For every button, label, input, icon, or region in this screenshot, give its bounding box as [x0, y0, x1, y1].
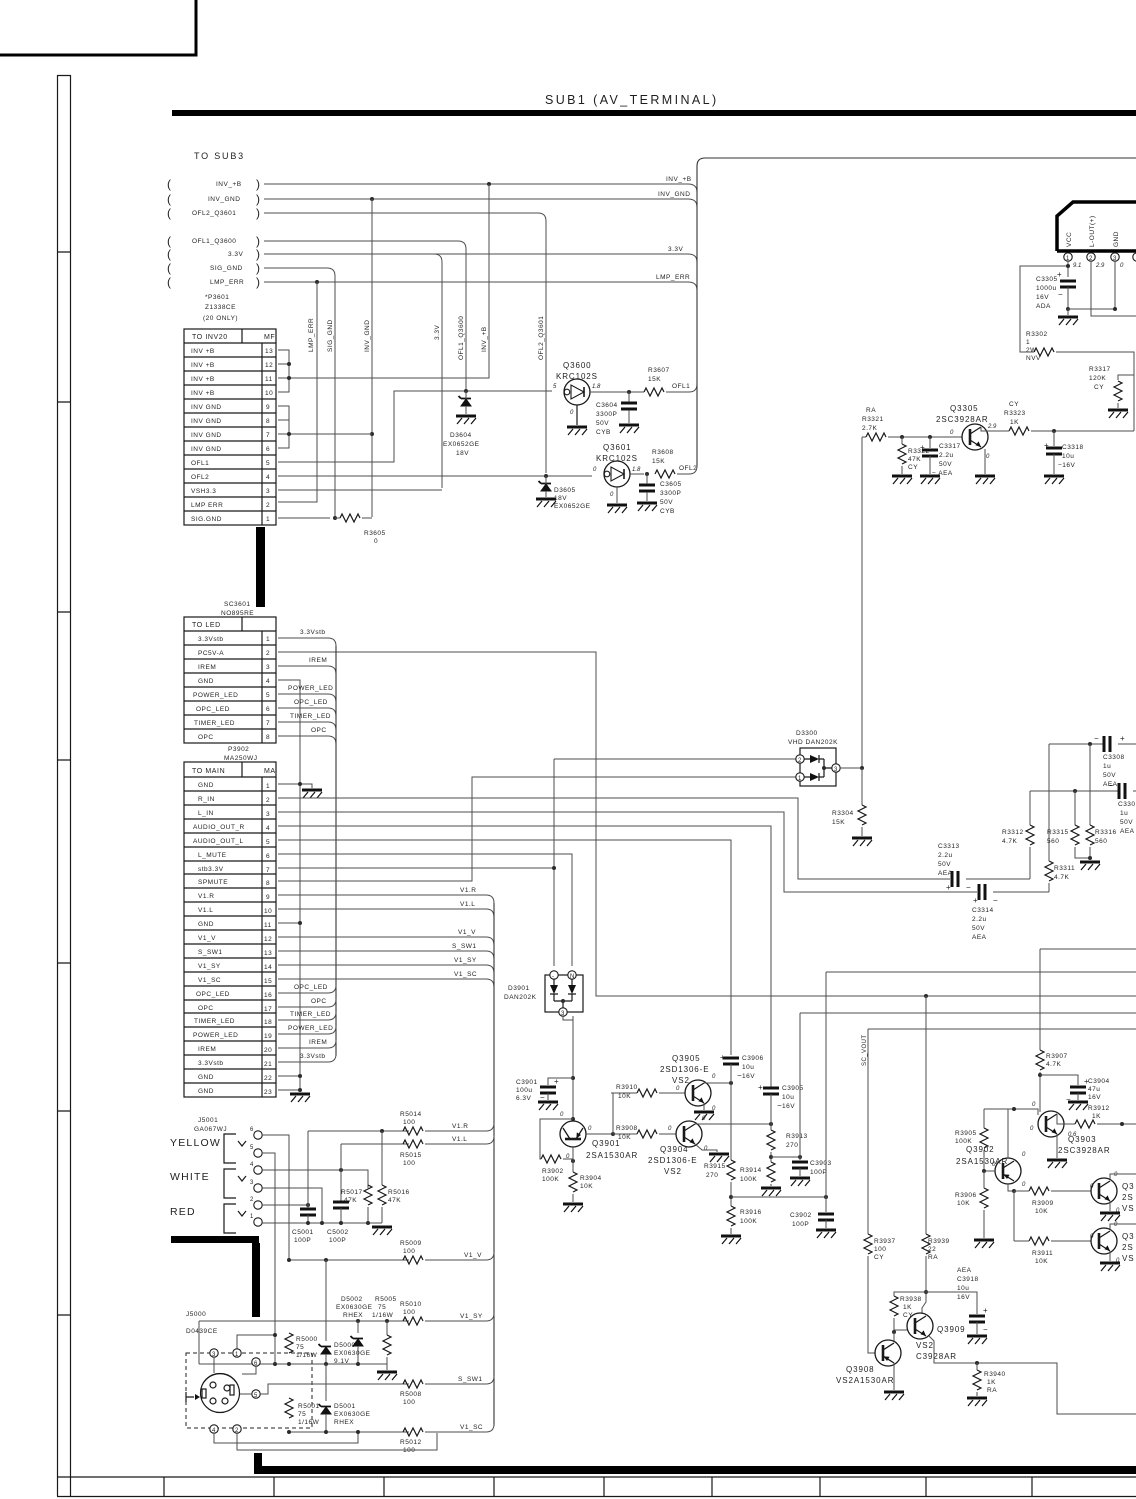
svg-text:Q3: Q3 [1122, 1182, 1134, 1191]
wire pin19 POWER_LED hook [278, 1026, 336, 1034]
svg-text:10u: 10u [782, 1094, 794, 1101]
svg-text:Q3901: Q3901 [592, 1139, 621, 1148]
resistor R3910 [613, 1092, 637, 1094]
resistor R5000 in video line [285, 1333, 293, 1353]
svg-text:100K: 100K [955, 1138, 972, 1145]
svg-text:INV GND: INV GND [191, 418, 222, 425]
svg-text:TO INV20: TO INV20 [192, 334, 228, 341]
svg-text:ADA: ADA [1036, 303, 1051, 310]
svg-text:V1_V: V1_V [464, 1252, 482, 1259]
connector stub LMP_ERR [167, 275, 260, 289]
svg-text:LMP ERR: LMP ERR [191, 502, 223, 509]
svg-text:1K: 1K [1010, 419, 1019, 426]
transistor Q3902 2SA1530AR [956, 1145, 1026, 1188]
svg-text:10K: 10K [618, 1093, 631, 1100]
ground Q3904 [709, 1154, 729, 1162]
svg-text:VS2A1530AR: VS2A1530AR [836, 1376, 894, 1385]
wire Q3904 collector to C3905 node [695, 1123, 771, 1125]
wire main top to right edge [697, 158, 1136, 166]
junction V1.L takeoff [339, 1168, 343, 1172]
svg-text:INV_GND: INV_GND [658, 191, 690, 198]
svg-text:75: 75 [378, 1304, 386, 1311]
svg-text:VS: VS [1122, 1254, 1134, 1263]
svg-text:5: 5 [254, 1393, 258, 1399]
junction Q3905 collector [729, 1081, 733, 1085]
resistor R5016 [381, 1131, 383, 1185]
wire net C3308 line [1049, 743, 1103, 745]
capacitor C3318 [1053, 431, 1055, 446]
wire pin13 S_SW1 hook [278, 951, 494, 959]
svg-text:+: + [1057, 270, 1063, 279]
wire pin5 OFL1 to Q3600 base [278, 391, 552, 462]
svg-text:4.7K: 4.7K [1054, 874, 1070, 881]
bottom title-block table [57, 1477, 1136, 1497]
svg-text:OPC_LED: OPC_LED [294, 699, 328, 706]
wire LMP_ERR to bus [264, 282, 697, 290]
svg-text:V1_SY: V1_SY [198, 963, 221, 970]
wire line y972 to right edge [826, 971, 1136, 973]
ground Q3903 [1047, 1160, 1067, 1168]
svg-text:RHEX: RHEX [343, 1312, 363, 1319]
wire svideo pin5 to S_SW1 [260, 1384, 409, 1394]
ground R3304 [852, 838, 872, 846]
wire Q3904 emitter ground [695, 1144, 717, 1152]
svg-text:10u: 10u [1062, 453, 1074, 460]
wire INV_+B to bus [264, 184, 697, 192]
resistor R5009 [403, 1256, 423, 1264]
wire svideo pin6 stub [242, 1366, 256, 1374]
svg-text:16V: 16V [957, 1294, 970, 1301]
zener D3604 [459, 396, 472, 406]
svg-text:OFL2_Q3601: OFL2_Q3601 [538, 316, 545, 360]
ground D3605 [536, 499, 556, 507]
svg-text:C3317: C3317 [939, 443, 961, 450]
wire pin1 GND [278, 784, 312, 788]
svg-text:V1.L: V1.L [460, 901, 475, 908]
svg-text:6: 6 [266, 853, 270, 860]
junction Q3909 collector node [924, 1290, 928, 1294]
svg-text:R3902: R3902 [542, 1168, 564, 1175]
svg-text:OFL1: OFL1 [672, 383, 690, 390]
capacitor C3901 [540, 1087, 556, 1093]
svg-text:8: 8 [266, 418, 270, 425]
svg-text:OFL2: OFL2 [191, 474, 209, 481]
svg-text:17: 17 [264, 1006, 272, 1013]
svg-text:SIG_GND: SIG_GND [327, 319, 334, 352]
svg-text:C3902: C3902 [790, 1212, 812, 1219]
svg-text:INV +B: INV +B [191, 348, 215, 355]
junction pin22 GND [278, 1075, 300, 1077]
wire V1.L line [341, 1144, 409, 1201]
svg-text:SC3601: SC3601 [224, 601, 251, 608]
transistor Q3908 [836, 1340, 901, 1385]
wire LMP_ERR vertical to pin2 [278, 282, 317, 502]
svg-text:V1.R: V1.R [452, 1123, 468, 1130]
ground R3315 R3316 [1080, 862, 1100, 870]
wire pin4 AUDIO_OUT_R down [278, 826, 771, 1087]
svg-text:2: 2 [798, 758, 802, 764]
rca jack red [224, 1204, 246, 1233]
svg-text:D0439CE: D0439CE [186, 1328, 218, 1335]
svg-text:16V: 16V [1036, 294, 1049, 301]
svg-text:L-OUT(+): L-OUT(+) [1089, 215, 1096, 247]
svg-text:PC5V-A: PC5V-A [198, 650, 224, 657]
svg-text:(: ( [167, 234, 171, 248]
svg-text:CY: CY [874, 1254, 884, 1261]
junction rail nodes [306, 1221, 310, 1225]
svg-text:20: 20 [264, 1047, 272, 1054]
ground C3901 [538, 1102, 558, 1110]
wire pin17 OPC hook [278, 999, 336, 1007]
svg-text:INV_GND: INV_GND [364, 320, 371, 352]
svg-text:AUDIO_OUT_L: AUDIO_OUT_L [193, 838, 244, 845]
svg-text:R3312: R3312 [1002, 829, 1024, 836]
ground Q3601 [607, 505, 627, 513]
wire D3300 pin3 to vertical [840, 767, 862, 769]
wire to Q3908 collector [894, 1332, 897, 1343]
svg-text:WHITE: WHITE [170, 1171, 210, 1183]
svg-text:50V: 50V [1120, 819, 1133, 826]
svg-text:1: 1 [266, 783, 270, 790]
resistor R3316 [1089, 744, 1091, 825]
svg-text:OFL1_Q3600: OFL1_Q3600 [192, 238, 236, 245]
wire to Q3909 base [894, 1329, 907, 1331]
capacitor C3918 [969, 1316, 985, 1322]
svg-text:−: − [1109, 781, 1115, 790]
svg-text:100: 100 [403, 1309, 415, 1316]
svg-text:2SD1306-E: 2SD1306-E [660, 1065, 709, 1074]
svg-text:3.3Vstb: 3.3Vstb [300, 1053, 326, 1060]
junction C3901 [571, 1076, 575, 1080]
svg-text:10K: 10K [957, 1200, 970, 1207]
wire pins 13-10 bracket [278, 350, 289, 392]
svg-text:2.2u: 2.2u [972, 916, 987, 923]
junction pin11 GND [278, 922, 300, 924]
wire R3907 vertical [1039, 949, 1041, 1050]
resistor R3937 [864, 1234, 872, 1254]
ground R3940 [967, 1398, 987, 1406]
svg-text:R3916: R3916 [740, 1209, 762, 1216]
wire Q3901 collector to R3908 [586, 1133, 611, 1135]
wire pins 9-6 bracket [278, 406, 289, 448]
capacitor C3902 [818, 1214, 834, 1220]
resistor R3916 [727, 1206, 735, 1226]
svg-text:OPC_LED: OPC_LED [294, 984, 328, 991]
svg-text:100: 100 [403, 1160, 415, 1167]
junction INV_GND [370, 197, 374, 201]
svg-text:9: 9 [266, 894, 270, 901]
wire line y949 to right edge [1040, 948, 1136, 950]
svg-text:EX0630GE: EX0630GE [334, 1411, 371, 1418]
junction D3300 out [860, 766, 864, 770]
thick L bar left of S-video section [171, 1236, 259, 1243]
svg-text:3.3Vstb: 3.3Vstb [198, 1060, 224, 1067]
connector table P3902 TO MAIN [184, 762, 276, 1097]
dual diode D3300 [788, 730, 840, 786]
svg-text:(: ( [167, 206, 171, 220]
transistor Q3305 2SC3928AR [936, 404, 997, 460]
svg-text:AEA: AEA [1120, 828, 1135, 835]
svg-text:15K: 15K [832, 819, 845, 826]
wire svideo pin4 bottom [214, 1432, 358, 1443]
ground R3904 [563, 1204, 583, 1212]
svg-text:47u: 47u [1088, 1086, 1100, 1093]
svg-text:1u: 1u [1120, 810, 1128, 817]
svg-text:Q3909: Q3909 [937, 1325, 966, 1334]
svg-text:C3903: C3903 [810, 1160, 832, 1167]
junction C3903 top [798, 1155, 802, 1159]
resistor R3940 [976, 1363, 978, 1370]
junction base line [1012, 1107, 1016, 1111]
svg-text:1/16W: 1/16W [298, 1419, 320, 1426]
junction R3316 top [1088, 742, 1092, 746]
wire SC IREM hook [278, 666, 336, 674]
svg-text:100: 100 [874, 1246, 886, 1253]
junction SIG_GND pin1 [333, 516, 337, 520]
svg-text:−16V: −16V [1058, 462, 1076, 469]
svg-text:NO895RE: NO895RE [221, 610, 254, 617]
svg-text:1: 1 [250, 1214, 254, 1220]
junction R3940 [975, 1361, 979, 1365]
svg-text:GND: GND [198, 678, 214, 685]
svg-text:R3906: R3906 [955, 1192, 977, 1199]
ground C3305 [1067, 309, 1069, 315]
ground D3604 [456, 416, 476, 424]
svg-text:OPC: OPC [311, 998, 327, 1005]
svg-text:OFL1: OFL1 [191, 460, 209, 467]
svg-text:S_SW1: S_SW1 [198, 949, 223, 956]
svg-text:R3904: R3904 [580, 1175, 602, 1182]
pin 4 partial [1133, 253, 1136, 261]
svg-text:*P3601: *P3601 [205, 294, 229, 301]
svg-text:3: 3 [250, 1180, 254, 1186]
svg-text:R3905: R3905 [955, 1130, 977, 1137]
svg-text:TIMER_LED: TIMER_LED [194, 1018, 235, 1025]
svg-text:3: 3 [266, 811, 270, 818]
junction D3604 [464, 389, 468, 393]
pin 4 jack [254, 1166, 262, 1174]
svideo connector J5000 [186, 1353, 312, 1428]
wire SC PC5V-A long [278, 652, 1136, 996]
wire svideo pin1 up to rail [237, 1335, 275, 1349]
svg-text:L_MUTE: L_MUTE [198, 852, 227, 859]
svg-text:6: 6 [266, 446, 270, 453]
svg-text:+: + [554, 1077, 560, 1086]
svg-text:POWER_LED: POWER_LED [288, 685, 333, 692]
svg-text:VHD DAN202K: VHD DAN202K [788, 739, 838, 746]
junction C3604 [627, 390, 631, 394]
svg-text:TIMER_LED: TIMER_LED [290, 1011, 331, 1018]
capacitor C3906 [723, 1058, 739, 1064]
wire to R3904 [572, 1147, 574, 1172]
wire node to C3903 [771, 1156, 800, 1158]
wire pin1 branch left box to R3302 [1020, 266, 1068, 352]
svg-text:560: 560 [1095, 838, 1107, 845]
wire Q3907 emitter ground [1109, 1251, 1111, 1261]
svg-text:IREM: IREM [309, 1039, 327, 1046]
resistor R3912 [1075, 1120, 1095, 1128]
svg-text:2S: 2S [1122, 1193, 1134, 1202]
svg-text:R3914: R3914 [740, 1167, 762, 1174]
wire Q3305 base vertical long down to D3300 [861, 437, 863, 768]
svg-text:C3901: C3901 [516, 1079, 538, 1086]
wire Q3902 collector down to R3909/R3911 rail [1008, 1184, 1014, 1191]
pin 1 jack [254, 1218, 262, 1226]
wire pin1 SIG.GND [278, 517, 330, 519]
resistor R5008 [403, 1380, 423, 1388]
svg-text:VS2: VS2 [916, 1341, 934, 1350]
svg-text:+: + [983, 1306, 989, 1315]
svg-text:100u: 100u [516, 1087, 532, 1094]
wire node to R3938 [894, 1292, 926, 1296]
sheet corner box top-left [0, 0, 196, 55]
svg-text:(20 ONLY): (20 ONLY) [203, 315, 238, 322]
zener D3605 [539, 481, 552, 491]
svg-text:16V: 16V [742, 1073, 755, 1080]
svg-text:3.3V: 3.3V [668, 246, 684, 253]
svg-text:1u: 1u [1103, 763, 1111, 770]
svg-text:SIG.GND: SIG.GND [191, 516, 222, 523]
svg-text:47K: 47K [344, 1197, 357, 1204]
svg-text:IREM: IREM [198, 664, 216, 671]
svg-text:47K: 47K [908, 456, 921, 463]
wire pin18 TIMER_LED hook [278, 1012, 336, 1020]
transistor Q3600 KRC102S [553, 361, 601, 416]
svg-text:1: 1 [235, 1352, 239, 1358]
label J5000 [186, 1311, 218, 1335]
svg-text:47K: 47K [388, 1197, 401, 1204]
svg-text:100P: 100P [329, 1237, 346, 1244]
svg-text:23: 23 [264, 1089, 272, 1096]
svg-text:IREM: IREM [309, 657, 327, 664]
capacitor C3308 [1094, 734, 1136, 788]
svg-text:CY: CY [908, 464, 918, 471]
wire pin5 AUDIO_OUT_L down [278, 840, 731, 1055]
wire pin6 video down [262, 1135, 289, 1260]
svg-text:11: 11 [265, 376, 273, 383]
ground Q3600 [567, 427, 587, 435]
svg-text:Q3905: Q3905 [672, 1054, 701, 1063]
svg-text:D5002: D5002 [341, 1296, 363, 1303]
svg-text:22: 22 [264, 1075, 272, 1082]
wire Q3601 collector to R3608 [630, 473, 644, 475]
wire V1_SC line [289, 1431, 409, 1433]
resistor R3322 [901, 437, 903, 444]
junction Q3909 base node [892, 1330, 896, 1334]
svg-text:J5001: J5001 [198, 1117, 218, 1124]
junction pin7 [287, 432, 291, 436]
svg-text:R3321: R3321 [862, 416, 884, 423]
svg-text:R3911: R3911 [1032, 1250, 1053, 1257]
capacitor C3904 [1070, 1087, 1086, 1093]
ground R3916 [721, 1236, 741, 1244]
svg-text:−: − [993, 896, 999, 905]
svg-text:Q3902: Q3902 [966, 1145, 995, 1154]
ground GND chain bottom [290, 1094, 310, 1102]
svg-text:INV_+B: INV_+B [481, 326, 488, 352]
junction R3910 branch [611, 1132, 615, 1136]
svg-text:− AEA: − AEA [932, 470, 953, 477]
wire pin5 down [262, 1153, 275, 1364]
svg-text:stb3.3V: stb3.3V [198, 866, 224, 873]
svg-text:SC_VOUT: SC_VOUT [862, 1035, 868, 1067]
ground R3317 [1108, 410, 1128, 418]
resistor R3915 [727, 1160, 735, 1180]
svg-text:100: 100 [403, 1248, 415, 1255]
svg-text:(: ( [167, 177, 171, 191]
svg-text:AEA: AEA [957, 1267, 972, 1274]
svg-text:C3308: C3308 [1103, 754, 1125, 761]
wire pin14 V1_SY hook [278, 965, 494, 973]
wire Q3600 collector to R3607 [590, 391, 644, 393]
svg-text:100K: 100K [542, 1176, 559, 1183]
svg-text:R5000: R5000 [296, 1336, 318, 1343]
svg-text:VCC: VCC [1066, 232, 1073, 247]
junction R3322 [900, 435, 904, 439]
svg-text:100P: 100P [810, 1169, 827, 1176]
capacitor C5002 [333, 1202, 349, 1208]
svg-text:Q3: Q3 [1122, 1232, 1134, 1241]
junction Q3901 emitter bottom [571, 1159, 575, 1163]
svg-text:+: + [946, 883, 952, 892]
svg-text:AEA: AEA [938, 870, 953, 877]
resistor R3311 [1045, 861, 1053, 881]
resistor R3607 [644, 388, 664, 396]
svg-text:R3607: R3607 [648, 367, 670, 374]
svg-text:OPC_LED: OPC_LED [196, 706, 230, 713]
svg-text:C3318: C3318 [1062, 444, 1084, 451]
svg-text:5: 5 [266, 839, 270, 846]
svg-text:R_IN: R_IN [198, 796, 215, 803]
svg-text:5: 5 [250, 1145, 254, 1151]
wire R3321 to Q3305 [888, 436, 962, 438]
svg-text:V1.L: V1.L [198, 907, 213, 914]
svg-text:R5015: R5015 [400, 1152, 422, 1159]
svg-text:INV_+B: INV_+B [216, 181, 242, 188]
capacitor C5001 [300, 1209, 316, 1215]
svg-text:4: 4 [266, 825, 270, 832]
resistor R3905 [983, 1109, 985, 1128]
svg-text:LMP_ERR: LMP_ERR [210, 279, 244, 286]
svg-text:2SA1530AR: 2SA1530AR [956, 1157, 1008, 1166]
junction C3904 branch [1038, 1073, 1042, 1077]
svg-text:270: 270 [706, 1172, 718, 1179]
capacitor C3905 [763, 1088, 779, 1094]
resistor R5010 [403, 1317, 423, 1325]
svg-text:3300P: 3300P [596, 411, 617, 418]
svg-text:R3608: R3608 [652, 449, 674, 456]
svg-text:3: 3 [834, 767, 838, 773]
svg-text:7: 7 [266, 720, 270, 727]
svg-text:Q3600: Q3600 [563, 361, 592, 370]
connector stub INV_+B [167, 177, 260, 191]
svg-text:R3910: R3910 [616, 1084, 638, 1091]
svg-text:R3915: R3915 [704, 1163, 726, 1170]
svg-text:10u: 10u [957, 1285, 969, 1292]
svg-text:R3323: R3323 [1004, 410, 1026, 417]
resistor R3939 [922, 1234, 930, 1254]
svg-text:1.8: 1.8 [632, 467, 641, 473]
svg-text:50V: 50V [660, 499, 673, 506]
svg-text:C3928AR: C3928AR [916, 1352, 957, 1361]
pin 3 svideo [210, 1349, 218, 1357]
svg-text:(: ( [167, 192, 171, 206]
svg-text:KRC102S: KRC102S [596, 454, 638, 463]
wire R3916 node to C3902 [731, 1196, 826, 1198]
svg-text:TIMER_LED: TIMER_LED [290, 713, 331, 720]
svg-text:EX0652GE: EX0652GE [443, 441, 480, 448]
svg-text:−: − [1058, 290, 1064, 299]
